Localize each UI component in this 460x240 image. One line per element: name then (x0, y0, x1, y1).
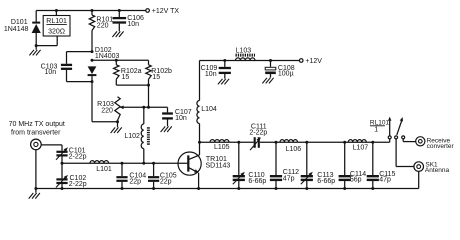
svg-text:+12V: +12V (305, 58, 322, 65)
svg-text:220: 220 (101, 108, 113, 115)
svg-text:47p: 47p (379, 176, 391, 183)
svg-text:15: 15 (122, 74, 130, 81)
svg-text:Antenna: Antenna (425, 167, 450, 174)
svg-text:220: 220 (97, 22, 109, 29)
svg-text:10n: 10n (127, 21, 139, 28)
svg-text:L105: L105 (214, 144, 230, 151)
svg-text:2-22p: 2-22p (69, 154, 87, 161)
svg-text:22p: 22p (160, 179, 172, 186)
svg-text:L106: L106 (286, 146, 302, 153)
svg-text:10n: 10n (205, 71, 217, 78)
svg-text:1N4148: 1N4148 (4, 26, 29, 33)
svg-text:L103: L103 (236, 47, 252, 54)
svg-text:70 MHz TX output: 70 MHz TX output (9, 121, 65, 128)
svg-text:L101: L101 (96, 166, 112, 173)
svg-text:10n: 10n (45, 69, 57, 76)
svg-text:6-66p: 6-66p (248, 178, 266, 185)
svg-text:2-22p: 2-22p (249, 130, 267, 137)
svg-text:L107: L107 (353, 145, 369, 152)
svg-text:100µ: 100µ (278, 71, 294, 78)
svg-text:6-66p: 6-66p (317, 178, 335, 185)
svg-text:SD1143: SD1143 (206, 162, 231, 169)
svg-text:L102: L102 (124, 133, 140, 140)
svg-text:15: 15 (152, 74, 160, 81)
svg-text:47p: 47p (283, 175, 295, 182)
svg-text:L104: L104 (201, 106, 217, 113)
svg-text:2-22p: 2-22p (69, 181, 87, 188)
svg-text:10n: 10n (175, 115, 187, 122)
svg-text:converter: converter (427, 143, 455, 150)
svg-text:22p: 22p (129, 179, 141, 186)
svg-text:320Ω: 320Ω (48, 29, 65, 36)
svg-text:from transverter: from transverter (11, 130, 61, 137)
svg-text:+12V TX: +12V TX (152, 8, 180, 15)
svg-text:56p: 56p (350, 176, 362, 183)
svg-text:1: 1 (374, 126, 378, 133)
